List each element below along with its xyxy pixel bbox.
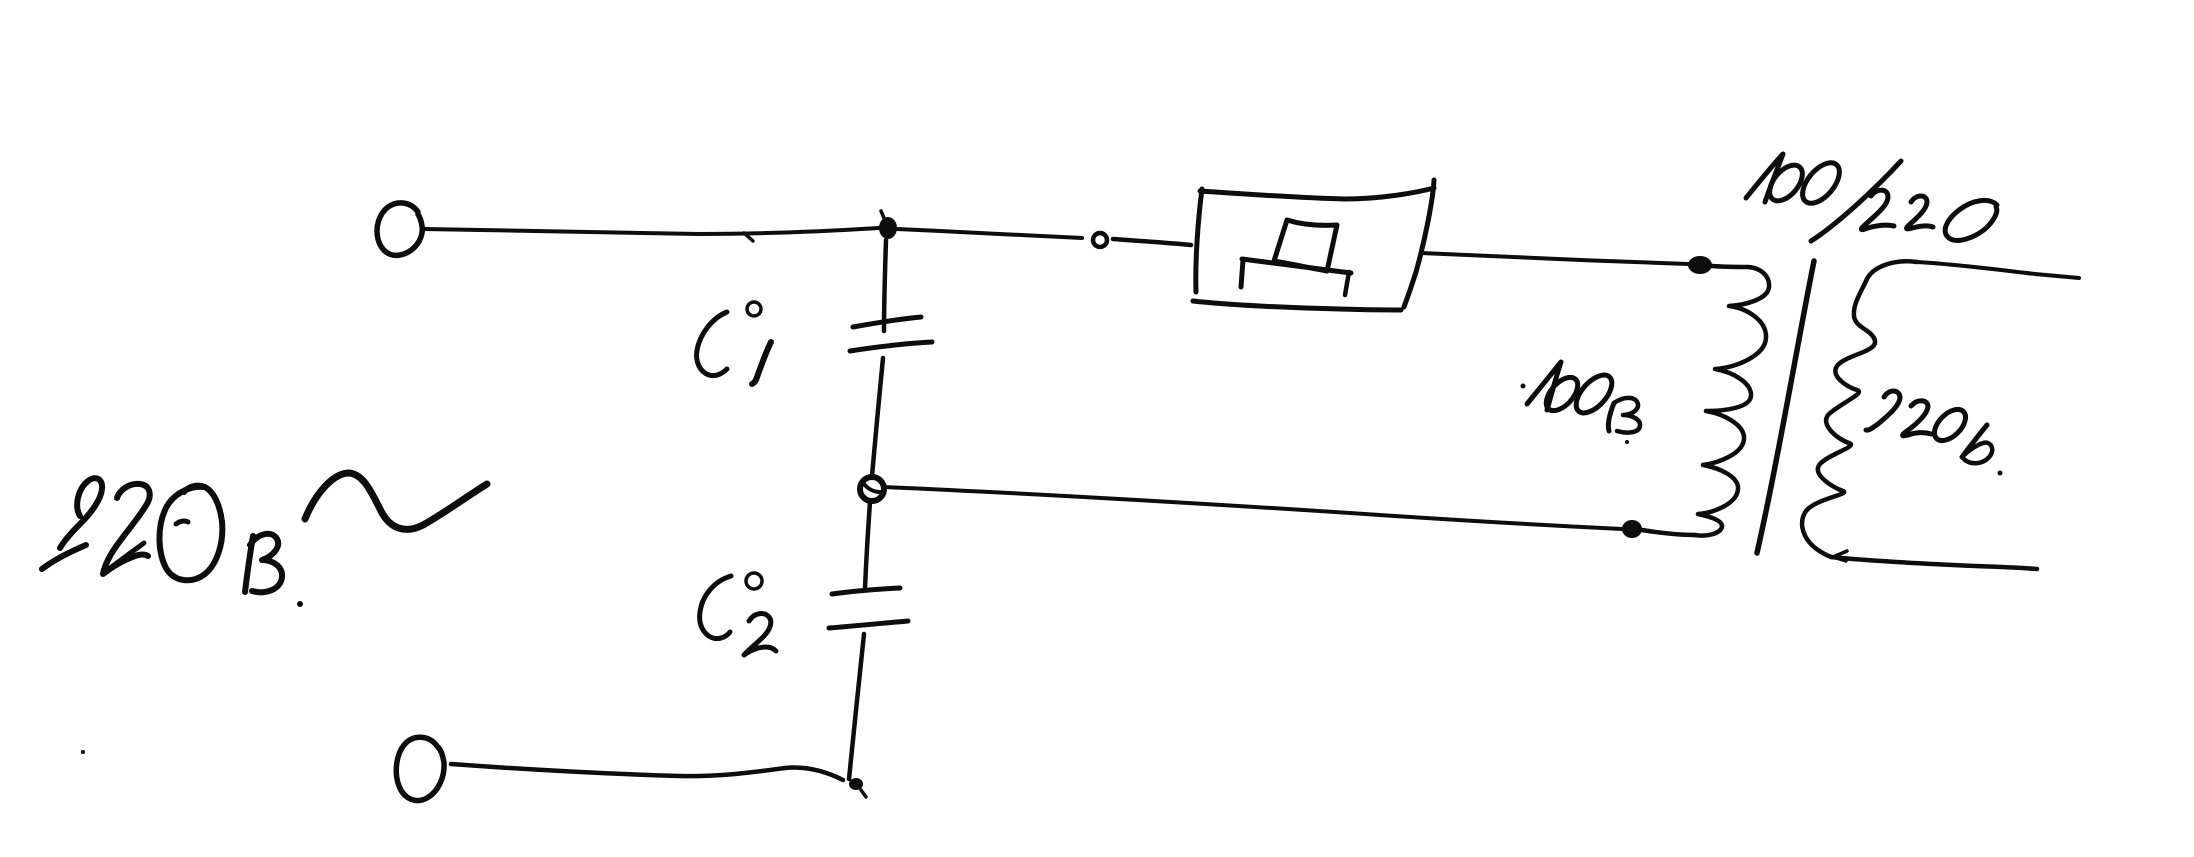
wire node B to switch box: [1113, 239, 1191, 245]
junction dot primary top: [1688, 256, 1712, 274]
wire bottom from T2 to C2 junction: [451, 764, 843, 780]
capacitor C2 plates: [829, 588, 908, 628]
wire dot to winding bottom: [1642, 530, 1695, 535]
label 100v primary: [1521, 362, 1641, 444]
capacitor C1 bottom lead: [872, 358, 883, 476]
junction A dot: [879, 211, 897, 239]
label 220V source: [42, 473, 487, 607]
label 220v secondary: [1866, 391, 2003, 476]
switch S1 box: [1193, 180, 1434, 310]
wire junction A to node B: [897, 229, 1082, 238]
label 100/220 transformer ratio: [1746, 154, 1997, 241]
capacitor C2 top lead: [865, 502, 870, 588]
capacitor C1 plates: [850, 317, 932, 351]
stray speck bottom-left: [81, 750, 85, 754]
wire top from T1 to junction A: [424, 228, 879, 241]
capacitor C2 bottom lead: [849, 634, 864, 779]
junction dot bottom: [849, 778, 866, 797]
capacitor C1 top lead: [884, 240, 886, 331]
wire node M to primary bottom: [884, 487, 1622, 529]
wire box to transformer primary: [1421, 253, 1688, 264]
terminal T1 top-left: [377, 203, 422, 256]
transformer core: [1757, 261, 1814, 553]
wire secondary bottom output: [1831, 551, 2037, 569]
label C2: [700, 573, 776, 655]
node M junction ring C1-C2: [860, 477, 884, 501]
transformer secondary winding 220v: [1802, 261, 1917, 557]
label C1: [697, 302, 771, 384]
junction dot primary bottom: [1622, 520, 1642, 538]
terminal T2 bottom-left: [396, 737, 444, 800]
node B small circle: [1093, 233, 1107, 247]
transformer primary winding 100v: [1695, 266, 1769, 536]
switch S1 button symbol: [1241, 220, 1351, 295]
wire secondary top output: [1917, 262, 2079, 278]
